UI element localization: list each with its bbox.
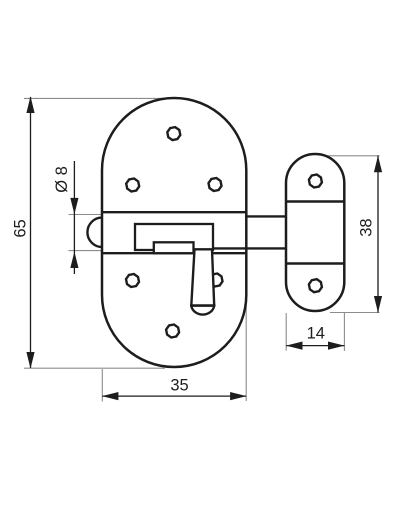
svg-text:35: 35 bbox=[170, 377, 188, 395]
svg-text:Ø 8: Ø 8 bbox=[53, 166, 71, 193]
svg-text:38: 38 bbox=[358, 218, 376, 236]
svg-text:65: 65 bbox=[12, 219, 30, 237]
svg-text:14: 14 bbox=[307, 325, 325, 343]
